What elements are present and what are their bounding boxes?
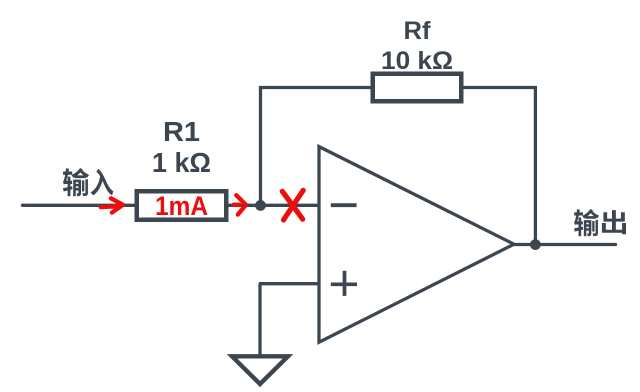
svg-text:R1: R1 xyxy=(163,116,200,147)
svg-text:1mA: 1mA xyxy=(155,191,208,221)
svg-text:1 kΩ: 1 kΩ xyxy=(152,147,211,178)
svg-text:10 kΩ: 10 kΩ xyxy=(381,47,453,75)
svg-text:Rf: Rf xyxy=(404,17,432,45)
